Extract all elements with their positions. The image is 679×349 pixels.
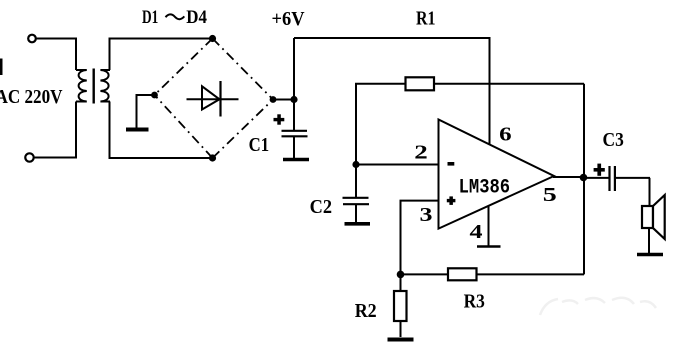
wire output vertical (feedback right side down to bottom rail) [583, 84, 585, 275]
wire secondary bottom to bridge bottom node [110, 102, 211, 159]
wire C3 to speaker [649, 178, 651, 207]
wire J1 to transformer primary top [37, 39, 77, 71]
svg-text:AC 220V: AC 220V [0, 86, 63, 108]
svg-text:D1: D1 [142, 7, 158, 28]
left edge artifact mark [0, 59, 3, 76]
wire +6V rail [294, 37, 491, 39]
svg-text:5: 5 [543, 184, 557, 206]
capacitor C1 [282, 100, 308, 159]
capacitor C3 plus sign [594, 164, 605, 176]
wire transformer primary bottom to J2 [35, 102, 77, 158]
faint watermark [540, 298, 656, 315]
wire bridge right node to C1 node [273, 99, 294, 101]
wire pin 4 to ground [488, 206, 490, 246]
transformer T1 secondary winding [100, 70, 110, 102]
ground (below R2) [388, 338, 414, 342]
wire bottom rail node to R3 [401, 273, 449, 275]
minus sign pin 2 [448, 162, 455, 166]
wire pin 2 input [356, 164, 439, 166]
transformer T1 primary winding [76, 70, 87, 102]
ground (speaker) [637, 253, 663, 257]
plus sign pin 3 [447, 196, 456, 205]
resistor R2 body [394, 274, 407, 337]
node bridge right [270, 96, 277, 103]
node C1 top [290, 96, 297, 103]
svg-text:+6V: +6V [272, 8, 306, 30]
capacitor C2 [343, 165, 370, 223]
ground (below C2) [345, 222, 371, 226]
wire R1 to output vertical [434, 83, 584, 85]
speaker LS1 [642, 195, 665, 239]
svg-text:C3: C3 [603, 129, 624, 151]
resistor R1 body [406, 77, 435, 90]
svg-text:R1: R1 [416, 8, 436, 30]
terminal J2 (AC input bottom) [25, 153, 33, 161]
svg-text:2: 2 [414, 142, 428, 164]
svg-text:C2: C2 [310, 196, 332, 218]
ground (below C1) [283, 158, 309, 162]
capacitor C3 [584, 166, 651, 191]
node bridge top [209, 35, 216, 42]
node bridge left [151, 92, 158, 99]
resistor R3 body [448, 268, 477, 280]
svg-text:D4: D4 [186, 7, 207, 28]
svg-text:R3: R3 [464, 292, 486, 313]
wire output pin 5 to node [553, 176, 584, 178]
node output [580, 174, 588, 182]
svg-text:C1: C1 [249, 134, 270, 156]
bridge rectifier arm top-left (dash-dot) [155, 39, 213, 96]
op-amp U1 LM386 triangle [439, 120, 555, 229]
node pin3 / R2 / R3 [397, 271, 405, 279]
wire speaker to ground [648, 228, 650, 253]
bridge rectifier arm top-right (dash-dot) [213, 39, 274, 100]
wire pin 3 input [401, 201, 439, 275]
wire C1 node up to +6V rail [293, 38, 295, 100]
ground (pin 4) [477, 245, 501, 248]
wire pin 6 drop from +6V rail [489, 38, 491, 145]
wire secondary top to bridge top node [110, 39, 211, 71]
svg-text:6: 6 [499, 123, 512, 145]
ground (bridge left node) [126, 95, 155, 130]
wire feedback top (pin2 node to output node via R1) [356, 84, 406, 165]
node pin2 / C2 [352, 161, 359, 168]
svg-text:LM386: LM386 [459, 176, 511, 199]
svg-text:4: 4 [470, 221, 483, 243]
terminal J1 (AC input top) [28, 35, 36, 43]
capacitor C1 plus sign [274, 114, 285, 124]
svg-text:3: 3 [420, 204, 433, 226]
bridge rectifier arm bottom-right (dash-dot) [213, 100, 274, 159]
bridge rectifier arm bottom-left (dash-dot) [155, 95, 213, 158]
node bridge bottom [209, 154, 216, 161]
transformer T1 core [92, 69, 94, 104]
wire R3 to output vertical [477, 273, 585, 275]
svg-text:R2: R2 [355, 300, 377, 322]
diode D1 (bridge symbol) [187, 81, 239, 117]
